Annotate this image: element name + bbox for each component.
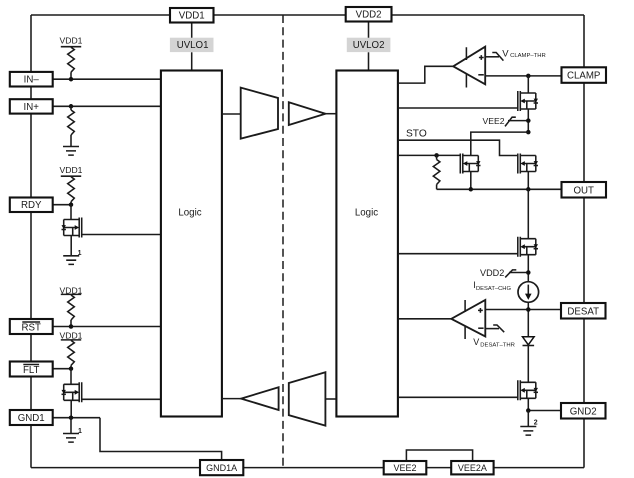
wire VEE2 branch to M2 drain [471,132,529,155]
current source I1 [518,282,539,303]
svg-text:Logic: Logic [355,208,378,219]
node junction GND1 [69,415,74,420]
ground (IN+ pull-down) [63,147,79,156]
pin VDD1 [170,8,214,23]
svg-text:FLT: FLT [23,365,40,376]
wire M5 source to GND2 line [527,398,529,410]
resistor R6 (soft turn-off gate) [433,155,440,189]
node junction DESAT [526,307,531,312]
wire U1 + input to Vclamp-thr tap [485,56,499,58]
svg-text:Logic: Logic [178,208,201,219]
isolation barrier dashed line [282,15,284,468]
wire Q1 source to ground [70,236,72,256]
pin GND1 [10,410,53,425]
wire U1 - input / CLAMP line [485,75,561,77]
node VDD2 tap [480,268,531,278]
wire M3 source [527,172,529,190]
node junction IN+ [69,104,74,109]
svg-text:IN+: IN+ [24,102,40,113]
block UVLO1 [170,38,214,52]
wire M4 gate to logic2 [398,253,518,255]
resistor R5 (FLT pull-up) [68,340,75,368]
svg-text:2: 2 [534,419,538,426]
svg-text:RST: RST [22,323,41,334]
wire FLT fet drain [70,369,72,385]
node VDD1 pull-up for RDY : VDD1 label [60,165,83,176]
svg-text:GND2: GND2 [570,406,597,417]
pin OUT [562,182,607,198]
svg-text:VDD1: VDD1 [60,36,83,46]
block UVLO2 [347,38,391,52]
wire RDY fet drain [70,205,72,220]
pin RST (active low) [10,319,53,334]
ground 2 (GND2) [520,419,538,435]
svg-text:DESAT–CHG: DESAT–CHG [476,286,511,292]
svg-text:VDD1: VDD1 [179,11,205,22]
node I DESAT-CHG label [473,280,511,292]
wire UVLO2 stems [368,22,370,71]
resistor R4 (RST pull-up) [68,295,75,327]
wire IN+ to Logic [53,105,161,107]
pin DESAT [561,303,606,319]
wire UVLO1 stems [191,23,193,71]
node junction IN- [69,77,74,82]
transistor M5 (desat clamp fet) [518,380,538,400]
node junction M3 source / OUT [526,187,531,192]
transistor M3 (pull-down fet) [518,154,538,174]
wire M1 source to VEE2 node [527,109,529,132]
ground 1 (GND1) [63,428,82,442]
svg-text:VDD2: VDD2 [356,10,382,21]
wire right border [583,15,585,468]
svg-text:GND1: GND1 [18,413,45,424]
node junction sto resistor [434,153,439,158]
svg-text:VDD1: VDD1 [60,330,83,340]
node VEE2 tap [483,116,531,126]
svg-text:DESAT–THR: DESAT–THR [480,342,515,348]
pin FLT (active low) [10,362,53,377]
logic block 1 [161,71,222,417]
resistor R3 (RDY pull-up) [68,177,75,205]
transistor M2 (soft turn-off fet) [460,154,480,174]
wire current source to DESAT node [527,302,529,336]
pin VEE2A [451,461,493,474]
wire Q1 gate to Logic [82,234,161,236]
wire U2 - input to Vdesat-thr tap [485,328,499,330]
buffer TX2 (trapezoid, return channel) [289,372,326,425]
node junction M2 source [469,187,474,192]
transistor M1 (clamp fet) [518,91,538,111]
buffer RX2 (triangle, return channel) [241,387,279,410]
wire GND1 to GND1A [100,418,222,460]
wire U1 output to logic2 [398,66,453,83]
wire DESAT line [485,309,561,311]
node junction clamp [526,74,531,79]
pin VDD2 [346,7,392,22]
wire top rail [31,14,584,16]
svg-text:VEE2: VEE2 [483,116,505,126]
svg-text:GND1A: GND1A [206,463,237,473]
wire M4 source to VDD2 tap [527,255,529,282]
buffer RX1 (triangle, forward channel) [289,102,326,125]
wire left border [30,15,32,468]
node V DESAT-THR tap [473,325,515,348]
node junction VEE2 branch [526,130,531,135]
wire Q2 gate to Logic [82,398,161,400]
svg-text:1: 1 [78,250,82,257]
pin IN- [10,72,53,87]
wire VEE2-VEE2A bracket [406,450,472,461]
transistor Q1 (RDY open-drain) [61,218,81,238]
op-amp U2 (desat comparator) [451,300,485,339]
wire GND1 stem to ground [70,418,72,434]
resistor R2 (IN+ pull-down) [68,106,75,146]
wire bottom rail [31,467,584,469]
svg-text:IN–: IN– [24,75,40,86]
svg-text:1: 1 [78,428,82,435]
svg-text:OUT: OUT [573,185,594,196]
node junction RST [69,324,74,329]
wire RST to Logic [53,326,161,328]
pin GND1A [200,460,243,475]
wire U2 output to logic2 [398,318,451,320]
svg-text:UVLO1: UVLO1 [177,40,209,51]
svg-text:CLAMP–THR: CLAMP–THR [510,53,546,59]
wire M1 gate to logic2 [398,107,518,109]
node VDD1 pull-up for IN- : VDD1 label [60,36,83,47]
wire diode to M5 drain [527,346,529,383]
transistor M4 (desat discharge fet) [518,237,538,257]
pin VEE2 [384,461,427,474]
pin CLAMP [562,67,607,83]
pin GND2 [561,403,606,419]
op-amp U1 (clamp comparator) [453,47,485,88]
wire Q2 source to GND1 line [70,400,72,417]
svg-text:DESAT: DESAT [567,306,599,317]
wire STO from logic2 [398,129,518,156]
wire OUT line [437,188,561,190]
svg-text:VDD1: VDD1 [60,165,83,175]
wire GND1 [53,417,101,419]
svg-text:V: V [502,48,509,59]
wire rx1 to logic2 [325,113,336,115]
ground 1 (RDY) [63,250,81,264]
svg-text:VEE2: VEE2 [393,463,416,473]
wire OUT node to M4 drain [527,189,529,238]
wire RDY [53,204,72,206]
node VDD1 pull-up for FLT : VDD1 label [60,330,83,340]
wire GND2 stem [527,411,529,427]
wire FLT [53,368,72,370]
wire logic1 to tx buffer (top channel) [222,113,241,115]
node junction GND2 [526,408,531,413]
transistor Q2 (FLT open-drain) [61,382,81,402]
svg-text:VEE2A: VEE2A [458,463,487,473]
pin IN+ [10,99,53,113]
svg-text:RDY: RDY [21,200,42,211]
buffer TX1 (trapezoid, forward channel) [241,88,278,139]
pin RDY [10,198,53,213]
wire GND2 line [528,410,561,412]
node junction FLT [69,366,74,371]
node VDD1 pull-up for RST : VDD1 label [60,285,83,295]
logic block 2 [336,71,398,417]
svg-text:UVLO2: UVLO2 [353,40,385,51]
wire M2 gate from logic2 [398,154,460,156]
resistor R1 (IN- pull-up) [68,47,75,79]
wire M5 gate to logic2 [398,396,518,398]
node junction RDY [69,202,74,207]
svg-text:STO: STO [406,129,427,140]
wire M2 source [470,172,472,190]
wire logic1 to rx triangle (return channel) [222,398,241,400]
wire M1 drain stem [527,76,529,93]
wire IN- to Logic [53,78,161,80]
svg-text:VDD2: VDD2 [480,268,504,278]
diode D1 (desat blanking) [523,337,535,346]
node V CLAMP-THR tap [492,48,545,60]
svg-text:CLAMP: CLAMP [567,71,600,82]
wire tx2 to logic2 [325,398,336,400]
svg-text:V: V [473,337,479,347]
